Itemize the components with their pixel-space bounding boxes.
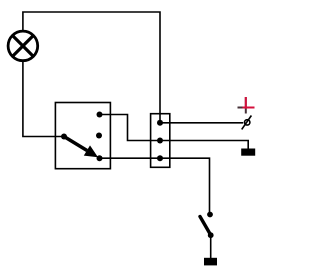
wire (23, 62, 63, 137)
power terminal pad 1 (241, 149, 255, 156)
node pin 2 (96, 133, 102, 139)
switch S2 lever (200, 217, 211, 236)
wire (160, 122, 243, 124)
node S2 bottom contact (208, 232, 214, 238)
lamp L1 (8, 31, 38, 61)
switch S1 rotary selector body (55, 103, 110, 169)
probe P1 open circle with slash (242, 116, 252, 130)
node S2 top contact (207, 212, 213, 218)
node terminal 2 (157, 138, 163, 144)
power terminal pad 2 (204, 258, 217, 266)
wire (160, 141, 248, 150)
node pin 1 (97, 112, 103, 118)
switch S2 (200, 212, 214, 239)
node terminal 3 (157, 155, 163, 161)
wire (23, 12, 160, 121)
wire (100, 158, 210, 214)
node common pin (61, 134, 67, 140)
wire (210, 235, 212, 258)
terminal strip TB1 body (151, 114, 170, 168)
switch S1 selector arrow (64, 137, 98, 158)
node terminal 1 (157, 120, 163, 126)
cursor crosshair (238, 97, 255, 114)
node pin 3 (97, 155, 103, 161)
wire (100, 115, 161, 141)
